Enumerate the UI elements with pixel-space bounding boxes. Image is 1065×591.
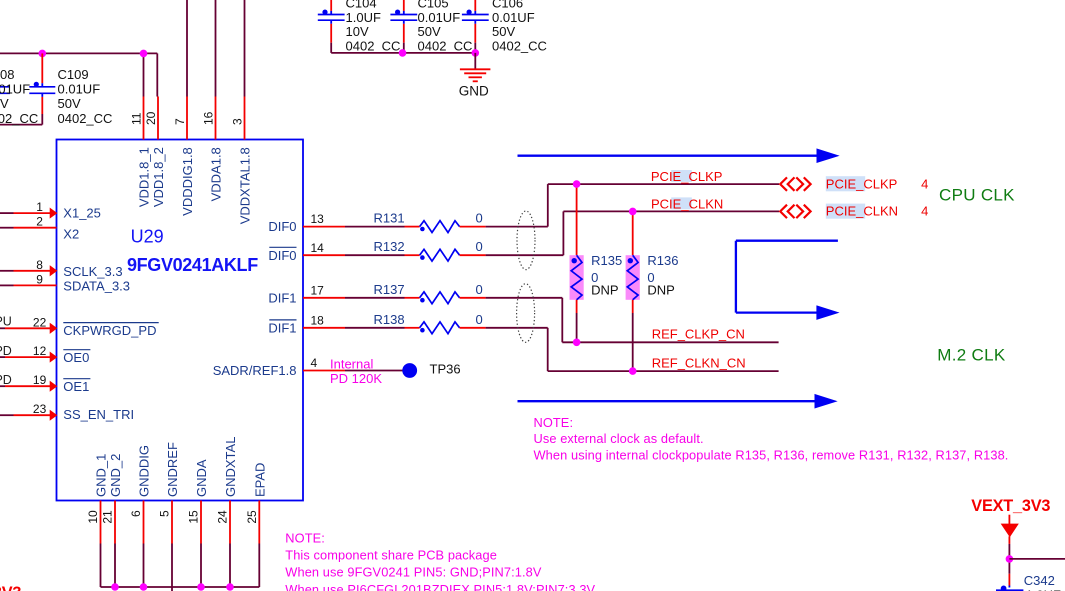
svg-text:M.2 CLK: M.2 CLK xyxy=(937,346,1006,365)
svg-text:Internal: Internal xyxy=(330,356,373,371)
svg-text:X1_25: X1_25 xyxy=(63,206,101,221)
svg-text:GNDXTAL: GNDXTAL xyxy=(223,437,238,497)
svg-text:VEXT_3V3: VEXT_3V3 xyxy=(971,497,1050,515)
svg-text:24: 24 xyxy=(216,510,230,524)
svg-text:GNDDIG: GNDDIG xyxy=(137,445,152,497)
svg-text:PD: PD xyxy=(0,344,12,358)
svg-text:0: 0 xyxy=(476,282,483,297)
svg-text:R135: R135 xyxy=(591,253,622,268)
svg-text:X2: X2 xyxy=(63,227,79,242)
svg-text:12: 12 xyxy=(33,344,47,358)
svg-text:SCLK_3.3: SCLK_3.3 xyxy=(63,264,122,279)
svg-text:6: 6 xyxy=(129,510,143,517)
svg-text:OE1: OE1 xyxy=(63,379,89,394)
svg-text:CKPWRGD_PD: CKPWRGD_PD xyxy=(63,323,156,338)
svg-text:4: 4 xyxy=(921,204,928,219)
svg-text:C342: C342 xyxy=(1024,573,1055,588)
svg-text:SS_EN_TRI: SS_EN_TRI xyxy=(63,407,134,422)
svg-text:3: 3 xyxy=(230,118,244,125)
svg-text:SADR/REF1.8: SADR/REF1.8 xyxy=(213,363,297,378)
svg-text:1.0UF: 1.0UF xyxy=(346,10,381,25)
svg-text:PCIE_CLKN: PCIE_CLKN xyxy=(826,204,898,219)
svg-text:0402_CC: 0402_CC xyxy=(492,38,547,53)
svg-text:Use external clock as default.: Use external clock as default. xyxy=(534,431,704,446)
svg-text:7: 7 xyxy=(173,118,187,125)
svg-text:5: 5 xyxy=(158,510,172,517)
svg-text:NOTE:: NOTE: xyxy=(534,415,574,430)
svg-text:VDDA1.8: VDDA1.8 xyxy=(209,147,224,201)
svg-text:DIF0: DIF0 xyxy=(268,219,296,234)
svg-text:PU: PU xyxy=(0,314,12,328)
svg-text:23: 23 xyxy=(33,402,47,416)
svg-text:0402_CC: 0402_CC xyxy=(0,111,38,126)
svg-text:PD: PD xyxy=(0,373,12,387)
svg-text:1: 1 xyxy=(36,200,43,214)
svg-text:TP36: TP36 xyxy=(430,361,461,376)
svg-text:R138: R138 xyxy=(374,312,405,327)
svg-text:0.01UF: 0.01UF xyxy=(58,82,101,97)
svg-text:2: 2 xyxy=(36,215,43,229)
svg-text:When use PI6CFGL201BZDIEX PIN5: When use PI6CFGL201BZDIEX PIN5:1.8V;PIN7… xyxy=(285,582,595,591)
svg-text:GND: GND xyxy=(459,83,489,98)
svg-text:NOTE:: NOTE: xyxy=(285,531,325,546)
svg-text:PCIE_CLKP: PCIE_CLKP xyxy=(826,176,898,191)
svg-text:10V: 10V xyxy=(346,24,369,39)
svg-text:50V: 50V xyxy=(0,96,9,111)
svg-text:1.0UF: 1.0UF xyxy=(1026,588,1061,591)
svg-text:0.01UF: 0.01UF xyxy=(0,82,30,97)
svg-text:VEXT_3V3: VEXT_3V3 xyxy=(0,584,21,591)
svg-text:50V: 50V xyxy=(418,24,441,39)
svg-text:50V: 50V xyxy=(492,24,515,39)
svg-text:VDD1.8_2: VDD1.8_2 xyxy=(151,147,166,207)
svg-text:16: 16 xyxy=(201,111,215,125)
svg-text:C108: C108 xyxy=(0,67,14,82)
svg-text:VDDDIG1.8: VDDDIG1.8 xyxy=(180,147,195,216)
svg-text:DIF1: DIF1 xyxy=(268,320,296,335)
svg-text:U29: U29 xyxy=(131,227,164,247)
svg-text:PCIE_CLKN: PCIE_CLKN xyxy=(651,196,723,211)
svg-text:9FGV0241AKLF: 9FGV0241AKLF xyxy=(127,255,258,275)
svg-text:0.01UF: 0.01UF xyxy=(418,10,461,25)
svg-text:When use 9FGV0241 PIN5: GND;PI: When use 9FGV0241 PIN5: GND;PIN7:1.8V xyxy=(285,565,542,580)
svg-text:R132: R132 xyxy=(374,239,405,254)
svg-text:DNP: DNP xyxy=(591,282,618,297)
svg-text:CPU CLK: CPU CLK xyxy=(939,186,1015,205)
svg-text:4: 4 xyxy=(921,176,928,191)
svg-text:VDDXTAL1.8: VDDXTAL1.8 xyxy=(238,147,253,224)
svg-text:20: 20 xyxy=(144,111,158,125)
svg-text:0: 0 xyxy=(476,211,483,226)
svg-text:GND_2: GND_2 xyxy=(108,454,123,497)
svg-text:GNDREF: GNDREF xyxy=(165,442,180,497)
svg-text:0: 0 xyxy=(476,239,483,254)
svg-text:22: 22 xyxy=(33,315,47,329)
svg-text:9: 9 xyxy=(36,272,43,286)
svg-text:19: 19 xyxy=(33,373,47,387)
svg-text:R137: R137 xyxy=(374,282,405,297)
svg-text:GND_1: GND_1 xyxy=(94,454,109,497)
svg-text:8: 8 xyxy=(36,258,43,272)
svg-text:When using internal clockpopul: When using internal clockpopulate R135, … xyxy=(534,447,1009,462)
svg-text:C109: C109 xyxy=(58,67,89,82)
svg-text:EPAD: EPAD xyxy=(252,463,267,497)
svg-text:17: 17 xyxy=(311,283,325,297)
svg-text:11: 11 xyxy=(129,112,143,125)
svg-text:21: 21 xyxy=(101,510,115,524)
svg-text:25: 25 xyxy=(245,510,259,524)
svg-text:OE0: OE0 xyxy=(63,350,89,365)
svg-text:GNDA: GNDA xyxy=(194,459,209,497)
svg-text:14: 14 xyxy=(311,241,325,255)
svg-text:SDATA_3.3: SDATA_3.3 xyxy=(63,278,130,293)
svg-text:REF_CLKN_CN: REF_CLKN_CN xyxy=(652,356,746,371)
svg-text:This component share PCB packa: This component share PCB package xyxy=(285,548,497,563)
svg-text:50V: 50V xyxy=(58,96,81,111)
svg-text:R136: R136 xyxy=(647,253,678,268)
svg-text:4: 4 xyxy=(311,356,318,370)
svg-text:DNP: DNP xyxy=(647,282,674,297)
svg-text:0402_CC: 0402_CC xyxy=(346,38,401,53)
svg-text:15: 15 xyxy=(187,510,201,524)
svg-text:PD 120K: PD 120K xyxy=(330,371,382,386)
svg-text:PCIE_CLKP: PCIE_CLKP xyxy=(651,169,723,184)
svg-text:VDD1.8_1: VDD1.8_1 xyxy=(137,147,152,207)
svg-text:0: 0 xyxy=(476,312,483,327)
svg-text:0402_CC: 0402_CC xyxy=(418,38,473,53)
svg-text:10: 10 xyxy=(86,510,100,524)
svg-text:18: 18 xyxy=(311,313,325,327)
svg-text:0.01UF: 0.01UF xyxy=(492,10,535,25)
svg-text:DIF1: DIF1 xyxy=(268,290,296,305)
svg-text:13: 13 xyxy=(311,212,325,226)
svg-text:R131: R131 xyxy=(374,211,405,226)
svg-text:REF_CLKP_CN: REF_CLKP_CN xyxy=(652,327,745,342)
svg-text:DIF0: DIF0 xyxy=(268,248,296,263)
svg-text:0402_CC: 0402_CC xyxy=(58,111,113,126)
